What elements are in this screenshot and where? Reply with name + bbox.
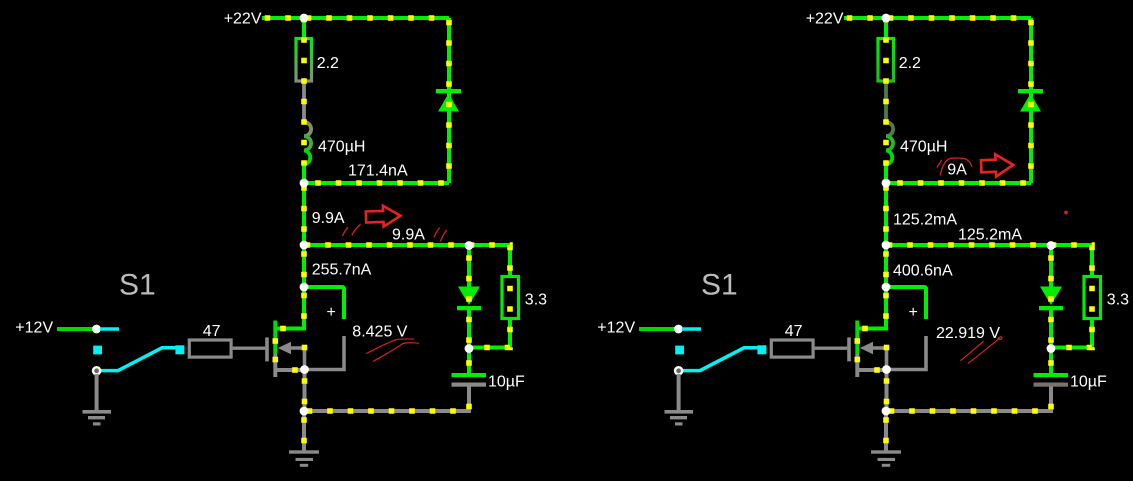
svg-text:+: + — [909, 304, 918, 321]
ground G1 (L) — [289, 450, 319, 467]
wire N7 to ground (L) — [302, 411, 306, 451]
resistor R2 3.3 (L) — [502, 277, 519, 319]
svg-text:125.2mA: 125.2mA — [958, 227, 1022, 244]
current dots D1 branch (R) — [1028, 18, 1034, 183]
diode D2 (points down) (L) — [457, 287, 481, 311]
resistor R1 2.2 (L) — [296, 39, 312, 82]
S1 upper lead stub (L) — [100, 327, 119, 331]
annotation red arrow (R) — [981, 154, 1014, 177]
svg-text:9.9A: 9.9A — [392, 227, 425, 244]
resistor R1 2.2 (R) — [878, 39, 894, 82]
wire N5 to D2 (L) — [467, 245, 471, 287]
wire D2 to N6 (R) — [1049, 309, 1053, 349]
wire +22V rail (L) — [262, 16, 449, 20]
node N1 (L) — [300, 14, 309, 23]
wire N3 to N5 (y=245) (L) — [304, 243, 469, 247]
svg-text:3.3: 3.3 — [1107, 292, 1129, 309]
diode D1 (points up) (R) — [1018, 89, 1043, 112]
wire N3 to N5 (y=245) (R) — [886, 243, 1051, 247]
svg-text:255.7nA: 255.7nA — [312, 262, 372, 279]
resistor R3 47 (R) — [771, 340, 813, 357]
resistor R3 47 (L) — [189, 340, 231, 357]
wire N2 to N3 (R) — [884, 183, 888, 245]
diode D1 (points up) (L) — [436, 89, 461, 112]
wire +22V rail (R) — [844, 16, 1031, 20]
svg-text:9.9A: 9.9A — [312, 210, 345, 227]
node N3 (R) — [882, 241, 891, 250]
annotation red scribble under 8.425 V (L) — [366, 339, 419, 362]
current dots R1-L1 branch (R) — [883, 18, 889, 183]
resistor R2 3.3 (R) — [1084, 277, 1101, 319]
node N5 (R) — [1047, 241, 1056, 250]
node N6 (R) — [1047, 344, 1056, 353]
capacitor C1 10µF (L) — [452, 373, 487, 387]
svg-text:+: + — [327, 304, 336, 321]
node N3 (L) — [300, 241, 309, 250]
annotation red scribbles near 9.9A (L) — [343, 224, 447, 241]
probe positive lead (R) — [886, 287, 926, 319]
wire N2 to D1 bottom (y=183) (R) — [886, 181, 1031, 185]
svg-text:470µH: 470µH — [900, 139, 947, 156]
svg-text:9A: 9A — [947, 162, 967, 179]
wire Q1 source node to N7 (R) — [885, 370, 889, 412]
svg-text:+22V: +22V — [806, 10, 844, 27]
wire D1 branch x=449 (R) — [1029, 18, 1033, 183]
node Nsrc (R) — [882, 365, 891, 374]
wire N2 to N3 (L) — [302, 183, 306, 245]
wire C1 to bottom rail (R) — [886, 387, 1051, 412]
wire R2 bottom to N6 (R) — [1051, 318, 1092, 348]
annotation tiny red dot (R) — [1064, 211, 1068, 215]
wire N4 to Q1 drain (R) — [859, 287, 886, 329]
svg-text:8.425 V: 8.425 V — [352, 323, 407, 340]
svg-text:47: 47 — [203, 323, 221, 340]
node Nsrc (L) — [300, 365, 309, 374]
annotation red scribble under 22.919 V (R) — [960, 337, 1002, 364]
node N7 (L) — [300, 407, 309, 416]
S1 upper post (R) — [674, 325, 683, 334]
svg-text:3.3: 3.3 — [525, 292, 547, 309]
svg-text:125.2mA: 125.2mA — [893, 212, 957, 229]
wire N4 to Q1 drain (L) — [277, 287, 304, 329]
wire N6 to C1 (L) — [467, 349, 471, 374]
capacitor C1 10µF (R) — [1034, 373, 1069, 387]
svg-text:470µH: 470µH — [318, 139, 365, 156]
node N1 (R) — [882, 14, 891, 23]
transistor Q1 gate lead (L) — [233, 347, 266, 350]
wire R2 bottom to N6 (L) — [469, 318, 510, 348]
wire +12V to S1 (L) — [57, 327, 96, 331]
ground G1 (R) — [871, 450, 901, 467]
current dots D1 branch (L) — [446, 18, 452, 183]
switch S1 (SPDT, open to +12V) (L) — [93, 345, 184, 374]
current dots output rail / R2 branch (R) — [886, 245, 1092, 348]
wire S1 lower post to ground (L) — [95, 374, 99, 410]
current dots D2 branch (R) — [1048, 245, 1054, 349]
annotation red arrow (L) — [366, 205, 401, 227]
wire N5 to R2 top (R) — [1051, 245, 1092, 276]
transistor Q1 (n-MOSFET) (L) — [267, 321, 307, 378]
svg-text:S1: S1 — [701, 269, 738, 302]
current dots output rail / R2 branch (L) — [304, 245, 510, 348]
svg-text:2.2: 2.2 — [899, 55, 921, 72]
svg-text:400.6nA: 400.6nA — [893, 263, 953, 280]
svg-text:171.4nA: 171.4nA — [348, 163, 408, 180]
wire R1 to L1 (L) — [302, 83, 306, 123]
svg-text:22.919 V: 22.919 V — [936, 325, 1000, 342]
svg-text:+12V: +12V — [597, 320, 635, 337]
svg-text:10µF: 10µF — [1070, 374, 1107, 391]
S1 upper lead stub (R) — [682, 327, 701, 331]
wire D2 to N6 (L) — [467, 309, 471, 349]
svg-text:+12V: +12V — [15, 320, 53, 337]
switch S1 (SPDT, open to +12V) (R) — [675, 345, 766, 374]
transistor Q1 gate lead (R) — [815, 347, 848, 350]
svg-text:+22V: +22V — [224, 10, 262, 27]
wire D1 branch x=449 (L) — [447, 18, 451, 183]
svg-text:S1: S1 — [119, 269, 156, 302]
probe negative lead (R) — [888, 336, 926, 370]
wire N2 to D1 bottom (y=183) (L) — [304, 181, 449, 185]
svg-text:10µF: 10µF — [488, 374, 525, 391]
wire S1 lower post to ground (R) — [677, 374, 681, 410]
probe positive lead (L) — [304, 287, 344, 319]
wire N6 to C1 (R) — [1049, 349, 1053, 374]
node N6 (L) — [465, 344, 474, 353]
wire N5 to D2 (R) — [1049, 245, 1053, 287]
wire N7 to ground (R) — [884, 411, 888, 451]
diode D2 (points down) (R) — [1039, 287, 1063, 311]
node N5 (L) — [465, 241, 474, 250]
wire +12V to S1 (R) — [639, 327, 678, 331]
wire C1 to bottom rail (L) — [304, 387, 469, 412]
ground G2 (L) — [83, 410, 112, 426]
node N7 (R) — [882, 407, 891, 416]
wire R1 to L1 (R) — [884, 83, 888, 123]
svg-text:2.2: 2.2 — [317, 55, 339, 72]
inductor L1 470µH (L) — [304, 122, 311, 165]
probe negative lead (L) — [306, 336, 344, 370]
wire L1 to node N2 (L) — [302, 165, 306, 184]
wire L1 to node N2 (R) — [884, 165, 888, 184]
wire N5 to R2 top (L) — [469, 245, 510, 276]
wire N3 to N4 (R) — [884, 245, 888, 287]
annotation red scribbles near 9A (R) — [937, 158, 972, 175]
wire N3 to N4 (L) — [302, 245, 306, 287]
transistor Q1 (n-MOSFET) (R) — [849, 321, 889, 378]
S1 upper post (L) — [92, 325, 101, 334]
wire Q1 source node to N7 (L) — [303, 370, 307, 412]
node N4 (R) — [882, 283, 891, 292]
inductor L1 470µH (R) — [886, 122, 893, 165]
node N2 (L) — [300, 179, 309, 188]
wire node N1 to resistor R1 (L) — [302, 18, 306, 37]
wire node N1 to resistor R1 (R) — [884, 18, 888, 37]
node N4 (L) — [300, 283, 309, 292]
node N2 (R) — [882, 179, 891, 188]
current dots D2 branch (L) — [466, 245, 472, 349]
current dots R1-L1 branch (L) — [301, 18, 307, 183]
ground G2 (R) — [665, 410, 694, 426]
svg-text:47: 47 — [785, 323, 803, 340]
